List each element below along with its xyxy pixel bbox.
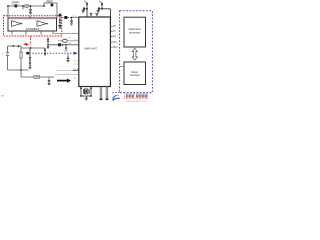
svg-text:RX: RX <box>113 35 117 38</box>
svg-text:P1.3: P1.3 <box>74 68 79 70</box>
svg-text:P1.2: P1.2 <box>74 64 79 66</box>
svg-text:SCL: SCL <box>113 41 118 44</box>
svg-text:P1.1: P1.1 <box>74 60 79 62</box>
svg-text:Application: Application <box>128 27 141 31</box>
svg-text:TX: TX <box>113 30 116 33</box>
svg-text:I/O: I/O <box>113 25 116 28</box>
svg-text:VDD: VDD <box>72 16 77 18</box>
svg-text:www.elecfans.com: www.elecfans.com <box>126 99 147 103</box>
svg-text:AMB-4487: AMB-4487 <box>84 47 98 51</box>
svg-text:SDA: SDA <box>113 46 118 49</box>
svg-text:processor: processor <box>129 31 141 35</box>
svg-text:ACS38XX: ACS38XX <box>26 27 40 31</box>
svg-text:interface: interface <box>130 73 141 77</box>
svg-text:RX: RX <box>68 43 72 45</box>
svg-text:Meter: Meter <box>131 70 138 74</box>
